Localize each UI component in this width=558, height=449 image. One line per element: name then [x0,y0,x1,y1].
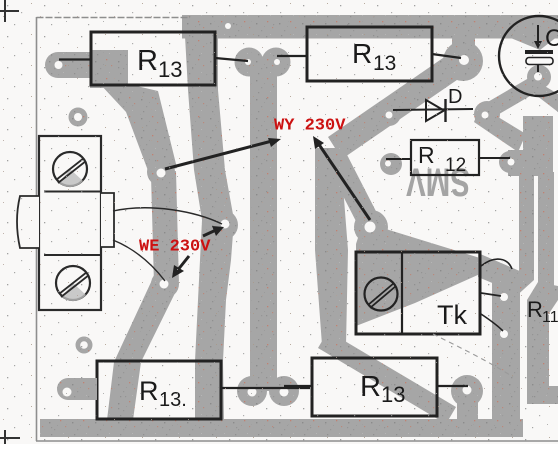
mounting ring top-left [69,108,88,127]
diode D triangle [426,100,444,121]
R12 right pad [499,151,521,173]
hole WY pad [221,220,230,229]
pad P_b [492,321,518,347]
C bottom pad [527,65,551,89]
top twin pad right [262,48,291,77]
capacitor C plus plate [525,50,553,54]
capacitor C minus plate [526,58,553,65]
resistor R13 box3 outline [97,361,221,419]
copper: trace D vertical [315,148,348,345]
wire terminal to WY pad [113,208,222,224]
hole R12 left pad [385,161,391,167]
resistor R13 box4 outline [312,358,437,416]
copper: Tk interior triangle [356,222,480,326]
hole left pad box1 [55,61,63,69]
hole diode left pad [386,112,393,119]
copper: trace A middle segment [151,171,179,284]
copper: trace B (vertical net, top band to bottom band) [185,36,234,420]
R13 box3 right lead [221,387,310,389]
arrow A1 node pad to WY [165,141,272,169]
copper: branch D2 elbow to Tk pad [323,147,381,231]
pad on trace B (WY input pad) [208,210,238,240]
hole top twin left [245,59,251,65]
pad on trace A (WE input pad) [151,270,179,298]
mounting ring bottom-left [76,337,93,354]
crosshair bottom-left [0,430,20,444]
diode D lead [393,109,473,110]
Tk wire lower [481,314,503,331]
big pad at top right of D1 [443,41,483,81]
copper: wedge inside C circle [506,36,558,50]
copper: big diagonal D1 from pad near C down-left [328,49,470,159]
Tk middle lead [481,293,501,296]
Tk divider [401,252,403,334]
crosshair top-left [0,0,19,22]
R13 box2 left lead [277,55,307,57]
hole WE pad [160,280,169,289]
arrow A2 Tk pad to WY [318,143,370,220]
copper: trace A bottom diagonal to band [107,280,178,420]
terminal divider 2 [44,254,101,256]
arrow A3 WE to pad1 [203,230,216,236]
copper: right column bend [527,282,558,318]
hole bottom twin left [248,388,257,397]
R13 box1 right lead [215,58,248,61]
terminal left tab [17,196,39,248]
diode D cathode bar [444,99,446,122]
Tk wire upper [481,259,512,269]
copper: bridge R12 pad to right vertical [508,150,538,176]
terminal screw 1 [53,152,87,186]
R13 box4 right lead [437,385,468,387]
copper: right edge L-trace lower [527,315,549,404]
hole ring bottom-left [80,341,88,349]
hole C pad [534,73,542,81]
hole P_a [500,293,508,301]
pad at Tk upper-left pin [354,210,388,244]
copper: Tk right bridge [478,253,522,293]
copper: right left column [519,172,534,280]
hole ring top-left [74,113,82,121]
terminal screw 2 [56,266,90,300]
resistor R13 box2 outline [307,27,432,81]
hole diode right pad [482,112,489,119]
hole node A pad [157,169,166,178]
copper: trace C middle column [250,58,277,391]
bottom twin pad left [237,376,267,406]
R12 left lead [386,158,411,160]
hole big pad D1 [459,55,469,65]
pad on trace A (node 162,172) [147,158,175,186]
copper: trace A transition below box1 [100,84,177,176]
hole bottom right pad [463,386,472,395]
copper: channel diode pad to right edge vertical [474,106,526,152]
copper: trace A slab behind R13 box1 [90,50,128,88]
copper: left column to pad P_a [500,272,534,299]
wire terminal to WE pad [113,240,165,281]
hole bottom twin right [280,388,289,397]
faint pencil line [433,334,513,377]
hole R12 right pad [508,159,515,166]
diode right pad [474,101,500,127]
hole top twin right [274,59,280,65]
copper: top supply band [182,15,558,39]
capacitor C arrow lead [537,25,539,42]
R13 box1 left lead [59,58,91,60]
terminal right tab [101,193,114,247]
resistor R12 outline [411,140,479,175]
pad at bottom R13 right lead [451,375,483,407]
diode left pad bulge [377,102,401,126]
copper: bottom diagonal D3 to band [318,331,456,424]
R13 box3 left lead [68,388,97,390]
Tk screw [365,278,398,311]
copper: C pad to diode-right-pad channel [486,75,542,117]
R13 box4 left lead [284,385,312,387]
R12 right lead [479,157,510,159]
copper: right merged channel top [523,116,553,172]
R13 box3 left pad [57,378,97,400]
bottom twin pad right [269,376,299,406]
hole band [225,23,231,29]
R12 left pad [380,153,402,175]
R13 box2 right lead [432,54,461,58]
copper: right right column [538,172,554,288]
arrow A4 WE to pad2 [177,256,189,271]
resistor R13 box1 outline [91,32,215,85]
copper: C pad to right edge channel [532,82,558,112]
hole P_b [500,330,508,338]
capacitor C lower lead [537,65,539,73]
copper: bottom band [40,419,523,437]
transformer Tk outline [356,252,480,334]
hole Tk pad [365,222,376,233]
capacitor C circle outline [499,16,558,96]
pad P_a [492,284,518,310]
copper: right pads vertical trace [492,272,520,419]
top twin pad left [235,48,264,77]
copper: trace A left pad blob [45,52,93,78]
terminal block outline [39,136,101,310]
terminal divider 1 [44,191,101,193]
